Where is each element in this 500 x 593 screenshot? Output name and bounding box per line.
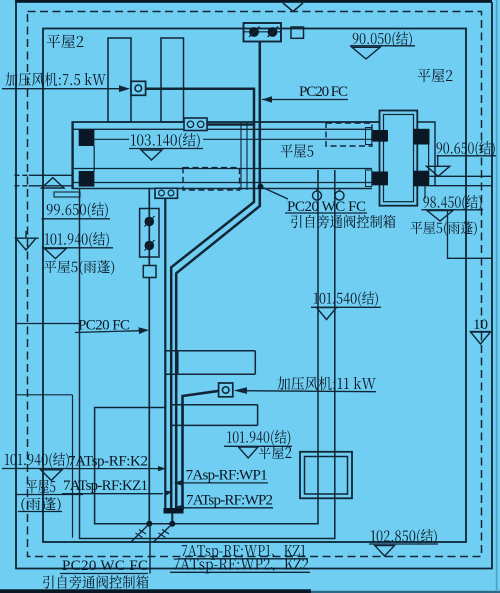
label 10 axis <box>471 317 491 344</box>
label jiayafengji 7.5kW with arrow and o-box <box>2 73 146 96</box>
o-box 11kW fan <box>219 383 233 397</box>
junction dot 1 <box>146 521 152 527</box>
label 7ATsp-RF:WP1 KZ1 <box>178 545 308 560</box>
left tie line y323 <box>16 323 80 325</box>
label pingwu5 in room <box>281 144 314 158</box>
left tie line y494 <box>16 494 83 496</box>
label pingwu2 top-left <box>47 35 84 49</box>
wall line x247 <box>246 122 248 190</box>
underline yubang <box>18 511 62 513</box>
small box below fan unit <box>143 266 156 278</box>
roof line right of shaft <box>417 122 435 186</box>
hatched cable from dot 2 <box>153 524 172 543</box>
fan box top center <box>244 23 282 42</box>
faint page edge right <box>496 0 498 590</box>
break marker V on top bar <box>283 3 303 12</box>
label jiayafengji 11kW with arrow <box>234 377 376 394</box>
small fan box 00 on room top <box>184 118 207 131</box>
dashed equipment box in room <box>183 168 240 190</box>
marker on dashed border <box>15 231 39 250</box>
dashed box 2 right <box>326 123 372 146</box>
bundle bottom bar <box>164 508 184 514</box>
canopy line 2 <box>429 185 492 187</box>
leader to PC20 WC FC label <box>261 187 289 200</box>
column left-top <box>79 129 95 146</box>
column left-bottom <box>79 171 95 187</box>
machine room bottom edge <box>72 188 373 190</box>
wire: bundle line A from 00 box <box>164 198 166 510</box>
fan unit vertical left <box>140 209 159 258</box>
label 7ATsp-RF:WP2 with arrow <box>176 493 273 510</box>
canopy edge lower to border <box>14 185 28 187</box>
label 90.050 <box>350 32 415 60</box>
label yupeng bottom-left <box>21 497 60 512</box>
wall line x241 <box>240 122 242 190</box>
label PC20 FC top with arrow <box>262 84 348 103</box>
elevation triangle up 99.650 <box>42 178 64 188</box>
label PC20 FC left with arrow <box>75 318 149 335</box>
label 7Asp-RF:WP1 with arrow <box>174 468 269 486</box>
label PC20 WC FC bottom <box>60 558 148 574</box>
label pingwu5 yupeng left <box>44 260 114 275</box>
shaft column LT <box>372 130 388 142</box>
duct rect B <box>170 405 257 426</box>
left vertical line x72.5 <box>72 395 74 538</box>
label PC20 WC FC top <box>285 199 367 215</box>
stair shaft structure right <box>380 111 418 206</box>
bottom black bar left <box>0 589 311 593</box>
junction dot 2 <box>169 521 175 527</box>
top black bar <box>15 0 492 3</box>
canopy line 1 <box>429 175 492 177</box>
label 7ATsp-RF:K2 with arrow <box>67 454 166 472</box>
small box right of fan box <box>291 27 304 38</box>
label 7ATsp-RF:WP2 KZ2 <box>170 558 310 573</box>
label 101.540 <box>311 291 381 319</box>
wire: thick line from 7.5kW fan <box>147 89 255 511</box>
fan circle 1 <box>249 27 259 37</box>
side rect left of LB column <box>366 170 372 187</box>
wire: line D from 11kW fan <box>183 391 220 508</box>
column wall line <box>93 146 95 171</box>
duct shaft 1 top <box>108 38 131 122</box>
shaft column RT <box>413 129 429 145</box>
bottom bar right thin <box>311 591 500 593</box>
rain pipe 1 with route <box>95 170 318 524</box>
machine room bottom edge inner <box>72 182 373 184</box>
double square bottom <box>300 452 352 499</box>
svg-text:7ATsp-RF:KZ1: 7ATsp-RF:KZ1 <box>63 478 148 494</box>
label 103.140 <box>129 133 203 160</box>
label 101.940 middle <box>224 430 292 458</box>
duct rect A <box>166 351 255 375</box>
svg-text:7ATsp-RF:K2: 7ATsp-RF:K2 <box>68 454 148 470</box>
canopy leader L-shape <box>448 210 493 258</box>
bundle tail to dot <box>171 514 173 524</box>
riser through fan unit <box>148 188 150 524</box>
connector line right columns <box>428 145 430 171</box>
label 7ATsp-RF:KZ1 with arrow <box>62 478 173 495</box>
inner building outline <box>43 29 466 543</box>
machine room left edge <box>71 122 73 189</box>
svg-text:7Asp-RF:WP1: 7Asp-RF:WP1 <box>186 468 268 484</box>
label pingwu5 bottom-left <box>27 480 56 494</box>
small fan box 00 below room <box>155 188 178 198</box>
wire from 00 box to riser <box>207 123 254 125</box>
hatched cable from dot 1 <box>131 524 150 543</box>
label 101.940 left <box>42 232 113 259</box>
label pingwu2 top-right <box>418 69 453 83</box>
machine room inner line upper <box>94 138 372 140</box>
label yinzi control box bottom <box>43 575 148 589</box>
duct shaft 2 top <box>161 38 184 122</box>
svg-text:PC20 WC FC: PC20 WC FC <box>62 558 148 574</box>
side rect left of LT column <box>366 128 372 145</box>
left tie line y395 <box>16 394 73 396</box>
rain pipe 2 with route <box>80 170 335 539</box>
label 101.940 bottom-left <box>2 453 72 481</box>
shaft column RB <box>413 171 429 187</box>
canopy edge upper to border <box>14 174 28 176</box>
svg-text:7ATsp-RF:WP2: 7ATsp-RF:WP2 <box>186 493 273 509</box>
junction dot on cable <box>258 184 264 190</box>
label 98.450 <box>422 186 484 221</box>
step below left column <box>54 192 80 197</box>
wire: thick stem from top fan box <box>176 42 260 512</box>
label 90.650 <box>427 141 496 176</box>
fan circle 2 <box>268 27 278 37</box>
riser continuation to label <box>149 524 151 574</box>
label pingwu2 middle <box>259 446 292 460</box>
machine room top edge inner <box>72 128 373 130</box>
label 102.850 <box>369 529 438 556</box>
label pingwu5 yupeng right <box>411 221 477 236</box>
label yinzi control box top <box>291 215 395 229</box>
svg-text:PC20 FC: PC20 FC <box>299 84 348 100</box>
shaft column LB <box>372 172 388 186</box>
drain circle 2 <box>339 189 341 192</box>
svg-text:10: 10 <box>473 317 488 333</box>
machine room inner line lower <box>74 168 372 170</box>
drain circle 1 <box>316 189 318 192</box>
machine room top edge <box>72 121 380 123</box>
label 99.650 <box>42 203 111 219</box>
